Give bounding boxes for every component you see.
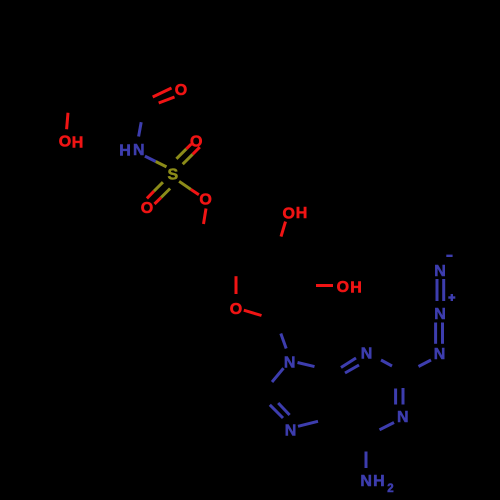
wire S=O lower-left line2 olive half: [161, 189, 170, 198]
wire C4'-Oring bond red half: [235, 276, 238, 294]
wire azide N2=N3 double bond line1: [436, 279, 439, 301]
wire S=O upper-right line2 olive half: [183, 154, 193, 164]
wire azide N2=N3 double bond line2: [442, 279, 445, 301]
wire C3'-OH bond red half: [281, 222, 286, 237]
svg-text:O: O: [199, 192, 211, 209]
wire S=O lower-left line1 olive half: [154, 182, 163, 191]
svg-text:O: O: [230, 301, 242, 318]
wire C2=N1 double bond line1 blue half: [394, 389, 397, 405]
wire C8=N7 double bond line2 blue half: [278, 403, 289, 415]
svg-text:N: N: [434, 346, 446, 363]
wire Oring-C1' bond red half: [244, 310, 262, 315]
wire N9-C8 bond blue half: [272, 368, 284, 382]
wire azide N1=N2 double bond line2: [441, 323, 444, 344]
svg-text:N: N: [360, 473, 372, 490]
wire N-S bond olive half: [156, 162, 167, 167]
wire C2h-O2h bond (hydroxyl top-left): [67, 113, 68, 130]
svg-text:O: O: [175, 82, 187, 99]
svg-text:N: N: [133, 142, 145, 159]
wire N9-C4 bond blue half: [298, 363, 315, 367]
svg-text:H: H: [296, 205, 308, 222]
wire C1'-N9 bond blue half: [281, 334, 286, 349]
wire C2=N1 double bond line2 blue half: [402, 388, 405, 405]
wire azide N1=N2 double bond line1: [434, 323, 437, 344]
svg-text:N: N: [361, 345, 373, 362]
wire C=O carbonyl double bond line2: [159, 97, 175, 103]
wire N1-C6 bond blue half: [380, 423, 395, 430]
wire N3=C4 double bond line2 blue half: [345, 365, 359, 373]
svg-text:2: 2: [387, 483, 393, 495]
wire S=O upper-right line1 olive half: [176, 149, 186, 159]
wire C8=N7 double bond line1 blue half: [270, 405, 283, 418]
svg-text:H: H: [119, 142, 131, 159]
svg-text:S: S: [167, 166, 178, 183]
wire N3=C4 double bond line1 blue half: [341, 358, 356, 368]
node plus charge on azide N beta: [448, 294, 455, 301]
wire N-C(=O) amide bond (N half): [139, 122, 142, 136]
svg-text:H: H: [72, 134, 84, 151]
wire N3-C2 bond blue half: [381, 360, 392, 366]
wire S=O lower-left line2 red half: [155, 198, 162, 205]
wire C6-NH2 bond blue half: [365, 452, 368, 469]
svg-text:O: O: [141, 200, 153, 217]
svg-text:N: N: [434, 306, 446, 323]
wire S=O upper-right line1 red half: [186, 144, 191, 149]
wire S-O ester bond red half: [191, 189, 199, 194]
wire C=O carbonyl double bond line1: [153, 88, 172, 97]
svg-text:H: H: [350, 279, 362, 296]
wire N-S bond blue half: [145, 156, 156, 161]
wire S-O ester bond olive half: [179, 181, 191, 189]
wire O-C5' bond red half: [204, 209, 207, 225]
wire S=O lower-left line1 red half: [147, 191, 154, 198]
svg-text:O: O: [337, 279, 349, 296]
wire S=O upper-right line2 red half: [193, 147, 200, 154]
wire C2-Nazide bond blue half: [419, 360, 432, 367]
wire C2'-OH bond red half: [316, 284, 333, 287]
wire N7-C5 bond blue half: [298, 421, 318, 426]
svg-text:O: O: [282, 205, 294, 222]
svg-text:N: N: [284, 354, 296, 371]
svg-text:N: N: [397, 409, 409, 426]
svg-text:O: O: [59, 134, 71, 151]
svg-text:O: O: [190, 133, 202, 150]
node minus charge on azide N gamma: [446, 255, 452, 257]
svg-text:H: H: [373, 473, 385, 490]
svg-text:N: N: [434, 263, 446, 280]
svg-text:N: N: [285, 422, 297, 439]
